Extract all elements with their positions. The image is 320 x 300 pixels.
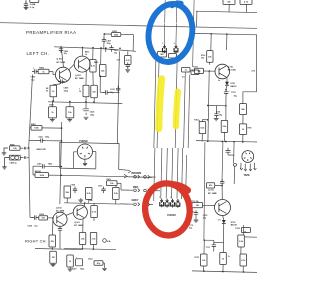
svg-text:5.6k: 5.6k [239, 241, 244, 243]
capacitor C426 [82, 102, 95, 117]
svg-text:Q 411: Q 411 [57, 58, 63, 61]
resistor R409A [35, 170, 62, 178]
transistor Q601 [73, 205, 87, 227]
svg-text:C613: C613 [110, 89, 114, 91]
wire [225, 96, 227, 106]
svg-text:Q 601: Q 601 [74, 222, 80, 224]
junction [61, 140, 63, 142]
svg-text:4.7k: 4.7k [241, 259, 246, 262]
resistor R431 [125, 51, 132, 64]
svg-text:PREAMPLIFIER RIAA: PREAMPLIFIER RIAA [26, 30, 76, 35]
wire line B [175, 58, 177, 148]
svg-text:C703: C703 [203, 215, 208, 217]
resistor R715 [220, 253, 230, 265]
ground [2, 158, 9, 169]
svg-text:33k: 33k [201, 58, 204, 60]
wire [214, 106, 219, 121]
wire [66, 213, 74, 216]
label LEFT CH. [27, 51, 50, 56]
component box (cut off at top) [30, 0, 39, 3]
svg-text:47μ: 47μ [64, 52, 67, 55]
label RED [133, 186, 138, 189]
ground [102, 265, 107, 270]
svg-text:BC 149B: BC 149B [75, 77, 84, 80]
svg-text:RIGHT CH.: RIGHT CH. [25, 238, 47, 243]
wire [221, 142, 224, 182]
svg-text:+: + [33, 67, 35, 69]
svg-text:39μ: 39μ [219, 114, 222, 116]
resistor R708 [240, 0, 252, 4]
junction [207, 140, 244, 142]
svg-text:10μ: 10μ [31, 79, 35, 81]
svg-text:3: 3 [170, 197, 171, 199]
svg-text:MD: MD [160, 54, 164, 56]
wire [93, 203, 95, 221]
svg-text:2: 2 [174, 43, 175, 45]
red marker circle [142, 180, 193, 238]
plug 1 (in blue ellipse) [162, 43, 166, 53]
yellow highlighter strip 2 [176, 92, 178, 127]
resistor R611 [107, 179, 118, 186]
svg-text:GREY: GREY [132, 199, 139, 202]
wire [103, 33, 105, 49]
svg-text:180p: 180p [48, 164, 53, 166]
transistor Q703 [208, 190, 231, 216]
transistor Q603 [53, 207, 67, 226]
capacitor C708 [220, 179, 224, 199]
wire [53, 101, 70, 107]
svg-text:10k: 10k [42, 218, 46, 220]
svg-text:R709: R709 [248, 128, 252, 130]
wire [192, 24, 195, 68]
junction [52, 248, 54, 250]
svg-text:BC 148C: BC 148C [228, 69, 237, 72]
label GREY [132, 199, 139, 202]
junction [61, 166, 63, 176]
svg-text:SER.P.UP.: SER.P.UP. [36, 149, 46, 151]
wire supply rail right [194, 33, 258, 35]
wire [67, 186, 116, 204]
wire section divider [0, 23, 257, 29]
wire [69, 64, 75, 70]
wire [154, 148, 155, 201]
DIN connector TAPE [242, 151, 254, 163]
wire [83, 245, 94, 250]
junction [204, 239, 206, 241]
transistor Q701 [215, 64, 237, 79]
junction [82, 248, 95, 250]
wire [222, 265, 224, 272]
svg-text:C703: C703 [231, 92, 236, 94]
svg-text:RED: RED [133, 186, 138, 189]
wire [120, 203, 133, 205]
svg-text:30p: 30p [114, 52, 117, 54]
svg-text:39μ: 39μ [234, 95, 238, 97]
capacitor C705 [214, 111, 222, 118]
arrow on wire [124, 174, 127, 178]
wire [161, 148, 168, 199]
junction [61, 127, 63, 129]
plug 2 (in blue ellipse) [174, 43, 178, 53]
svg-text:C611: C611 [98, 186, 102, 188]
svg-text:4.7k: 4.7k [126, 59, 131, 62]
capacitor C605 [27, 215, 38, 227]
svg-text:BC 149B: BC 149B [57, 61, 66, 64]
junction [28, 147, 30, 149]
wire [93, 152, 96, 169]
svg-text:47μ: 47μ [203, 217, 207, 220]
wire [208, 71, 209, 141]
wire [223, 216, 224, 253]
wire [193, 0, 196, 23]
resistor R405 [38, 67, 49, 74]
label C406 [10, 161, 18, 164]
svg-text:4.7k: 4.7k [252, 70, 256, 73]
wire line A [157, 58, 159, 149]
capacitor C617 [109, 45, 118, 54]
resistor R425 [31, 123, 42, 130]
svg-text:100k: 100k [34, 128, 39, 130]
svg-text:BA318: BA318 [231, 224, 237, 227]
svg-text:0.7v: 0.7v [218, 219, 221, 221]
label PHONO top [79, 141, 88, 143]
capacitor C403 [31, 67, 39, 81]
svg-text:56k: 56k [241, 109, 245, 111]
wire line D [188, 75, 190, 148]
capacitor C409 [59, 46, 68, 55]
wire [33, 166, 61, 175]
wire [20, 147, 29, 150]
svg-text:9v: 9v [218, 80, 220, 82]
label SER P UP [36, 149, 46, 151]
component box under plugs 2 [169, 54, 177, 59]
wire bottom bus [192, 271, 257, 272]
svg-text:C711: C711 [206, 247, 210, 249]
label PREAMPLIFIER RIAA [26, 30, 76, 35]
resistor R417 [49, 104, 57, 118]
svg-text:100k: 100k [40, 175, 45, 177]
wire [86, 97, 94, 102]
svg-text:C405: C405 [64, 87, 70, 90]
svg-text:1.2k: 1.2k [13, 148, 18, 150]
ground [2, 148, 8, 155]
wire [209, 62, 211, 65]
wire [20, 156, 29, 159]
label 0.7v [218, 219, 221, 221]
diode D701 [225, 78, 236, 88]
resistor R605 [39, 214, 53, 220]
junction [207, 105, 209, 121]
resistor R601c [64, 186, 71, 198]
label C43A 0.1u [30, 3, 36, 9]
svg-text:4.7k: 4.7k [92, 210, 97, 213]
svg-text:10k: 10k [92, 91, 96, 93]
ground [83, 159, 87, 165]
wire [241, 225, 244, 272]
svg-text:BC 149B: BC 149B [74, 224, 83, 227]
component C709 [235, 228, 250, 234]
capacitor C401 [37, 163, 53, 169]
component box above Q703 [207, 183, 223, 188]
junction [60, 46, 121, 49]
svg-text:10k: 10k [68, 112, 72, 114]
junction [52, 100, 94, 103]
wire [30, 127, 62, 129]
plug stub [241, 163, 255, 170]
ground [50, 118, 55, 122]
plug phono 3 [170, 197, 174, 208]
svg-text:PHONO: PHONO [79, 141, 88, 143]
test point circle [103, 239, 112, 243]
junction [52, 100, 54, 102]
svg-text:33k: 33k [208, 56, 212, 58]
wire [86, 48, 93, 85]
wire [105, 48, 107, 52]
wire [196, 11, 257, 12]
capacitor C433 [126, 62, 130, 69]
svg-text:R415: R415 [94, 61, 98, 64]
wire mid bottom [64, 248, 116, 249]
svg-text:4.7k: 4.7k [117, 59, 120, 62]
resistor R706 [240, 104, 247, 115]
svg-text:12k: 12k [196, 205, 200, 207]
resistor R408 [50, 251, 57, 263]
svg-text:PHONO: PHONO [167, 214, 176, 217]
label 4.7k col [117, 59, 120, 62]
plug phono 2 [165, 199, 169, 208]
wire [81, 48, 83, 57]
svg-text:3.3k: 3.3k [92, 238, 97, 240]
svg-text:8.2k: 8.2k [200, 127, 205, 129]
resistor R717v [238, 235, 245, 247]
svg-text:R423: R423 [112, 30, 117, 33]
resistor R713 [195, 254, 208, 266]
wire [182, 148, 183, 199]
ground [125, 70, 130, 72]
svg-text:Q 701: Q 701 [228, 66, 234, 68]
svg-text:09: 09 [46, 91, 48, 93]
svg-text:C426: C426 [90, 111, 95, 114]
wire [25, 0, 27, 3]
wire [245, 4, 247, 12]
wire [204, 240, 214, 242]
wire [29, 140, 61, 142]
wire [210, 34, 212, 51]
label C711 47u left [189, 225, 193, 230]
connector pair red [134, 189, 160, 193]
enclosure box [60, 142, 119, 169]
svg-text:4.7k: 4.7k [244, 1, 249, 4]
wire [117, 183, 133, 190]
svg-text:22k: 22k [101, 70, 105, 72]
wire [104, 33, 134, 51]
label RIGHT CH. [25, 238, 47, 243]
DIN connector PHONO [77, 144, 92, 159]
label TAPE [244, 174, 251, 177]
wire [164, 0, 167, 23]
capacitor C421 [38, 136, 50, 143]
svg-text:1k: 1k [228, 256, 230, 258]
wire [242, 115, 244, 143]
wire [172, 148, 179, 199]
svg-text:C401: C401 [37, 163, 42, 166]
capacitor C405 [58, 79, 69, 92]
wire collector rail [54, 47, 136, 52]
svg-text:C403: C403 [31, 76, 37, 79]
svg-text:C607: C607 [72, 268, 77, 270]
svg-text:C609: C609 [71, 185, 76, 187]
junction [100, 75, 102, 77]
resistor R413 [85, 51, 96, 73]
switch contact [234, 163, 237, 166]
capacitor C427 [58, 226, 62, 249]
connector pair grey [134, 203, 153, 207]
wire right edge corner [243, 35, 257, 104]
junction [225, 105, 227, 107]
diode D703 [222, 220, 237, 227]
svg-text:1.8k: 1.8k [81, 238, 86, 240]
wire [175, 24, 177, 45]
resistor R705 [221, 120, 228, 132]
wire [225, 106, 226, 142]
svg-text:R713: R713 [195, 257, 200, 259]
wire [64, 203, 120, 204]
svg-text:D703: D703 [231, 222, 236, 224]
svg-text:1k: 1k [222, 258, 225, 260]
wire [204, 142, 205, 240]
yellow highlighter strip 1 [159, 79, 162, 129]
resistor R408B [9, 155, 20, 160]
svg-text:0.5: 0.5 [182, 77, 185, 79]
svg-text:10μ: 10μ [34, 225, 38, 227]
svg-text:1k: 1k [52, 91, 55, 93]
wire long horizontal [61, 175, 152, 177]
resistor R615c [113, 187, 120, 199]
svg-text:BC 148B: BC 148B [208, 192, 217, 195]
svg-text:3.9k: 3.9k [222, 126, 227, 128]
resistor R419 [66, 107, 74, 118]
svg-text:C709: C709 [235, 228, 241, 230]
ground [67, 118, 72, 122]
svg-text:C406 1μ: C406 1μ [10, 161, 18, 164]
wire [203, 240, 206, 271]
svg-text:BC 149B: BC 149B [56, 210, 65, 213]
svg-text:C612: C612 [88, 259, 93, 261]
capacitor C711 [206, 242, 224, 251]
svg-text:1: 1 [162, 43, 163, 45]
wire [49, 71, 55, 74]
component box under plugs [158, 52, 167, 58]
wire [208, 104, 226, 106]
svg-text:56k: 56k [90, 200, 93, 202]
wire [52, 218, 54, 235]
resistor R409 [46, 85, 57, 97]
svg-text:180p: 180p [64, 91, 69, 93]
wire [228, 4, 230, 11]
ground [24, 7, 29, 9]
svg-text:C43A: C43A [30, 3, 36, 6]
label 4.7k [252, 70, 256, 73]
svg-text:6.8k: 6.8k [107, 241, 112, 243]
svg-text:47μ: 47μ [189, 226, 192, 229]
wire [196, 11, 198, 26]
svg-text:1k: 1k [42, 71, 45, 73]
resistor R717 [240, 254, 247, 266]
label BROWN [132, 172, 142, 175]
svg-text:100μ: 100μ [90, 115, 95, 117]
wire [199, 120, 202, 141]
svg-text:1M: 1M [198, 71, 201, 73]
resistor R407 [49, 235, 56, 247]
resistor R701 [192, 67, 215, 74]
svg-text:47μ: 47μ [97, 262, 101, 265]
svg-text:Q 413: Q 413 [75, 74, 82, 77]
svg-text:100μ: 100μ [107, 43, 112, 45]
svg-text:100μ: 100μ [80, 268, 85, 270]
svg-text:10μ: 10μ [110, 92, 113, 94]
svg-text:47k: 47k [51, 240, 55, 243]
resistor R702 [194, 120, 205, 134]
wire [233, 166, 235, 184]
junction [225, 89, 227, 91]
wire [100, 48, 102, 64]
capacitor C612 [88, 259, 103, 266]
ground [51, 263, 56, 266]
wire [74, 152, 77, 168]
wire long mid [196, 141, 257, 142]
svg-text:3.9k: 3.9k [114, 193, 119, 195]
label C607 100u [72, 268, 85, 270]
capacitor C607 [76, 257, 83, 266]
svg-text:C605: C605 [27, 225, 32, 227]
svg-text:100μ: 100μ [45, 137, 50, 139]
ground [84, 117, 89, 119]
svg-text:R4: R4 [46, 87, 48, 90]
wire [190, 205, 198, 222]
capacitor C609 [71, 185, 78, 194]
resistor R415 [94, 61, 106, 77]
resistor R709 [239, 124, 251, 134]
svg-text:LEFT CH.: LEFT CH. [27, 51, 50, 56]
svg-text:TAPE: TAPE [244, 174, 251, 177]
wire vertical bus [60, 122, 62, 204]
ground [78, 198, 83, 202]
resistor R703 [201, 51, 213, 63]
svg-text:1M: 1M [52, 257, 55, 259]
junction [209, 70, 211, 72]
wire emitter bus [48, 102, 122, 104]
svg-text:Q 603: Q 603 [56, 207, 62, 209]
svg-text:47k: 47k [209, 184, 213, 187]
ground [68, 267, 73, 271]
wire [83, 202, 86, 232]
wire [29, 75, 33, 148]
connector pair brown [134, 175, 156, 179]
wire [226, 34, 228, 50]
svg-text:8.2k: 8.2k [87, 193, 92, 195]
wire [103, 263, 104, 265]
plug chevrons [240, 168, 256, 171]
svg-text:R702: R702 [194, 120, 198, 122]
svg-text:R413: R413 [85, 51, 89, 54]
label PHONO bottom [167, 214, 176, 217]
svg-text:1k: 1k [85, 54, 87, 56]
resistor R613 [79, 233, 86, 245]
svg-text:56k: 56k [66, 192, 70, 194]
capacitor C419 [100, 76, 119, 94]
wire [244, 236, 257, 238]
resistor R711 [191, 201, 215, 208]
